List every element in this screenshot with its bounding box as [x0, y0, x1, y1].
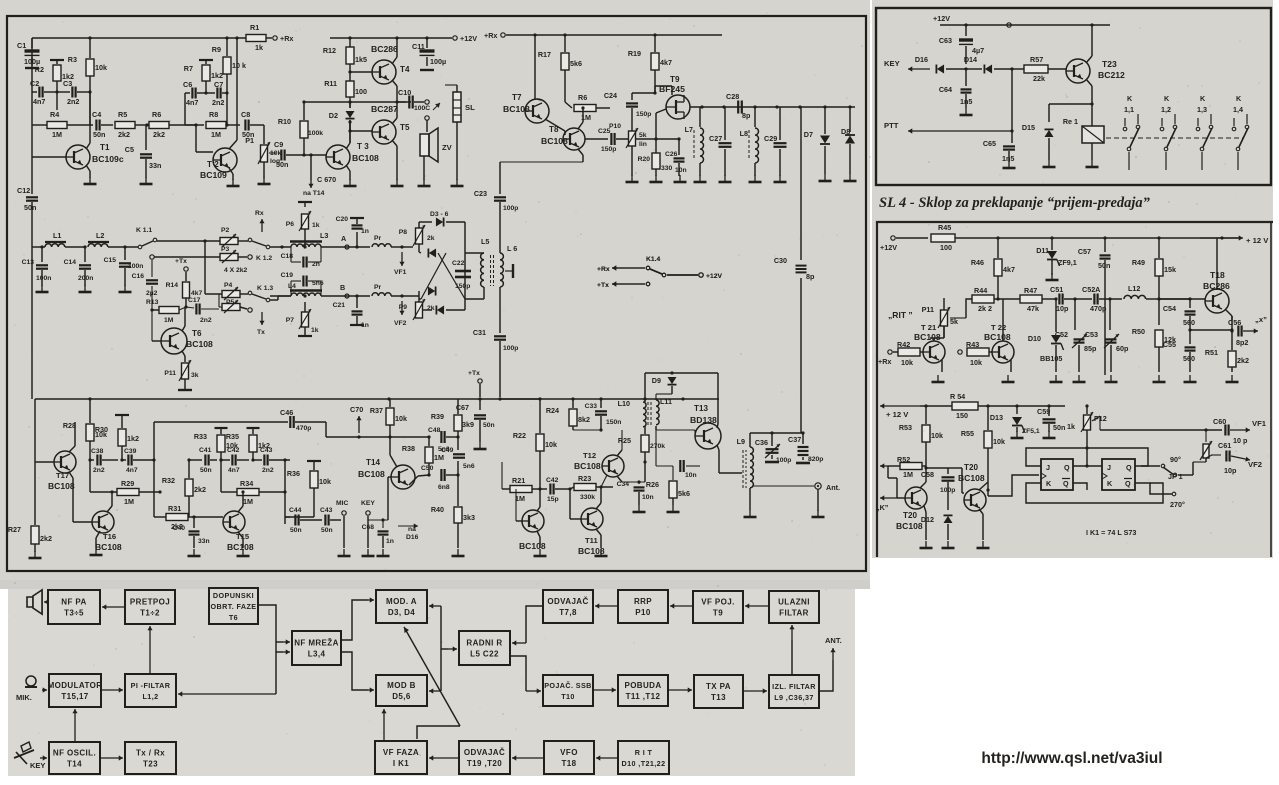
capacitor C4 [95, 120, 97, 131]
long wire to C60 [1100, 429, 1222, 431]
svg-text:T5: T5 [400, 123, 410, 132]
svg-text:C33: C33 [585, 403, 598, 410]
svg-text:C10: C10 [398, 88, 411, 97]
svg-text:2k2: 2k2 [194, 485, 206, 494]
T16 collector/emitter [107, 506, 112, 512]
svg-text:SL: SL [465, 103, 475, 112]
T13 emitter to L9 [717, 445, 719, 450]
arrow into MOD B right [429, 690, 441, 692]
switch arm K1.2 row [252, 241, 266, 246]
output jack to SL [425, 100, 429, 104]
svg-text:BC108: BC108 [519, 541, 546, 551]
svg-text:T 21: T 21 [921, 323, 937, 332]
transformer L5/L6 [465, 252, 484, 254]
block POJAC.SSB [543, 675, 593, 706]
resistor R7 [205, 60, 207, 64]
svg-text:P8: P8 [399, 229, 408, 236]
svg-text:L3,4: L3,4 [308, 650, 326, 659]
wire T20b collector to clock [987, 490, 989, 496]
svg-text:IZL. FILTAR: IZL. FILTAR [772, 682, 816, 691]
wire SL top [456, 85, 458, 92]
resistor R4 [32, 124, 47, 126]
svg-text:R26: R26 [646, 480, 659, 489]
svg-text:1n: 1n [386, 538, 394, 545]
capacitor C67 [479, 399, 481, 410]
T2 collector up [229, 140, 237, 149]
svg-text:VF1: VF1 [394, 269, 407, 276]
svg-text:T 3: T 3 [357, 142, 369, 151]
capacitor C65 [1011, 131, 1013, 143]
svg-text:8p: 8p [742, 111, 751, 120]
+Tx terminal mid [478, 379, 482, 383]
capacitor C14 [84, 247, 86, 262]
transistor T16 BC108 [92, 511, 114, 533]
right-mid panel border [877, 222, 1273, 557]
svg-text:820p: 820p [808, 456, 823, 463]
wire IZL.FILTAR to ANT [819, 660, 833, 691]
svg-text:50n: 50n [290, 527, 302, 534]
svg-text:C23: C23 [474, 189, 487, 198]
svg-text:R34: R34 [240, 479, 253, 488]
block TX PA [694, 675, 743, 708]
svg-text:R31: R31 [168, 504, 181, 513]
svg-text:C60: C60 [1213, 417, 1226, 426]
svg-text:BD138: BD138 [690, 415, 717, 425]
JP1 selector [1161, 464, 1165, 468]
pot P11 3k [182, 363, 189, 379]
trimmer C53 [1109, 299, 1111, 330]
resistor R19 [654, 35, 656, 52]
transistor T21 BC108 [923, 341, 945, 363]
svg-text:+Rx: +Rx [280, 34, 293, 43]
na D16 arrow [398, 525, 418, 527]
svg-text:10p: 10p [1224, 466, 1237, 475]
svg-text:NF PA: NF PA [61, 598, 86, 607]
capacitor C38 [96, 455, 98, 466]
diode D15 [1045, 130, 1054, 137]
wire C30 column to L9 top [750, 432, 803, 434]
svg-text:VF FAZA: VF FAZA [383, 748, 419, 757]
transistor T23 BC212 [1066, 59, 1090, 83]
svg-text:J: J [1107, 463, 1111, 472]
resistor R36 [307, 460, 321, 462]
svg-text:VF2: VF2 [394, 320, 407, 327]
resistor R57 [1012, 68, 1025, 70]
svg-text:T13: T13 [711, 693, 726, 702]
resistor R46 [997, 238, 999, 258]
svg-text:1M: 1M [903, 470, 913, 479]
svg-text:ZF5,1: ZF5,1 [1022, 428, 1040, 435]
svg-text:P2: P2 [221, 227, 230, 234]
wire C16 bottom left join [144, 306, 146, 308]
svg-text:D14: D14 [964, 55, 977, 64]
svg-text:C5: C5 [125, 145, 134, 154]
svg-text:2n2: 2n2 [67, 97, 79, 106]
svg-text:L1: L1 [53, 231, 61, 240]
svg-text:10 k: 10 k [232, 61, 246, 70]
svg-text:J: J [1046, 463, 1050, 472]
svg-text:+ 12 V: + 12 V [1246, 236, 1269, 245]
svg-text:BC108: BC108 [95, 542, 122, 552]
arrow into NF MREZA top input [276, 641, 283, 643]
capacitor C23 [494, 196, 506, 198]
svg-text:FILTAR: FILTAR [779, 609, 809, 618]
capacitor C41 [189, 459, 202, 461]
svg-text:MOD. A: MOD. A [386, 597, 417, 606]
svg-text:BC212: BC212 [1098, 70, 1125, 80]
capacitor C5 33n [145, 125, 147, 150]
svg-text:10k: 10k [970, 358, 982, 367]
svg-text:2k: 2k [427, 235, 435, 242]
svg-text:R20: R20 [638, 156, 651, 163]
transistor T14 BC108 [391, 465, 415, 489]
block RADNI R [459, 631, 510, 665]
T14 collector [389, 437, 391, 455]
svg-text:T6: T6 [192, 329, 202, 338]
capacitor C56 output [1231, 330, 1233, 331]
bus rail y397 [35, 398, 719, 400]
feedback wire into PI-FILTAR [178, 693, 276, 695]
svg-text:K: K [1236, 94, 1242, 103]
wire C54/C55 node to T18 emitter [1190, 329, 1232, 331]
svg-text:Tx: Tx [257, 329, 265, 336]
speaker ZV [420, 134, 429, 156]
svg-text:100: 100 [355, 87, 367, 96]
capacitor C3 [57, 91, 70, 93]
svg-text:90°: 90° [1170, 455, 1181, 464]
resistor R32 [188, 460, 190, 478]
svg-text:150p: 150p [455, 283, 470, 290]
block PRETPOJ [125, 590, 175, 624]
svg-text:R8: R8 [209, 110, 218, 119]
resistor R21 [510, 486, 532, 493]
svg-text:1k5: 1k5 [355, 55, 367, 64]
capacitor C13 [41, 247, 43, 262]
svg-text:C40: C40 [173, 525, 186, 532]
svg-text:1,2: 1,2 [1161, 105, 1171, 114]
top rail row1 [32, 37, 246, 39]
main panel border [7, 16, 866, 571]
capacitor C6 [185, 92, 190, 94]
capacitor C48 [440, 431, 442, 443]
svg-text:P10: P10 [635, 608, 651, 617]
svg-text:L9 ,C36,37: L9 ,C36,37 [774, 693, 814, 702]
svg-text:3k9: 3k9 [462, 420, 474, 429]
svg-text:I K1 = 74 L S73: I K1 = 74 L S73 [1086, 528, 1136, 537]
block VFO [544, 741, 594, 774]
capacitor C11 electrolytic [426, 38, 428, 48]
svg-text:PI -FILTAR: PI -FILTAR [131, 681, 171, 690]
svg-text:4k7: 4k7 [191, 290, 203, 297]
svg-text:MOD B: MOD B [387, 681, 416, 690]
svg-text:BC108: BC108 [186, 339, 213, 349]
svg-text:R10: R10 [278, 117, 291, 126]
transistor T12 BC108 [602, 455, 624, 477]
svg-text:1k: 1k [1067, 422, 1075, 431]
svg-text:C22: C22 [452, 260, 465, 267]
svg-text:D15: D15 [1022, 123, 1035, 132]
svg-text:C39: C39 [124, 448, 137, 455]
transistor T20b BC108 [964, 489, 986, 511]
KEY terminal [366, 511, 370, 515]
svg-text:C29: C29 [764, 134, 777, 143]
ground under Re1 [1091, 160, 1093, 167]
svg-text:22k: 22k [1033, 74, 1045, 83]
svg-text:http://www.qsl.net/va3iul: http://www.qsl.net/va3iul [981, 750, 1162, 767]
pot P9 [416, 302, 423, 318]
svg-text:BC108: BC108 [227, 542, 254, 552]
resistor R11 [349, 79, 351, 81]
svg-text:R50: R50 [1132, 327, 1145, 336]
block PI-FILTAR [125, 674, 176, 707]
svg-text:1k: 1k [312, 222, 320, 229]
svg-text:MIK.: MIK. [16, 693, 32, 702]
svg-text:470p: 470p [296, 425, 311, 432]
T9 BF245 [666, 95, 690, 119]
svg-text:10k: 10k [95, 63, 107, 72]
T13 BD138 [695, 423, 721, 449]
svg-text:+Tx: +Tx [468, 370, 480, 377]
mic icon [26, 676, 36, 686]
svg-text:50n: 50n [1098, 261, 1110, 270]
svg-text:C59: C59 [1037, 407, 1050, 416]
capacitor C8 [244, 120, 246, 131]
wire DOPUNSKI to NF MREZA input [258, 605, 276, 694]
inductor L12 [1124, 295, 1146, 299]
svg-text:JP 1: JP 1 [1168, 472, 1183, 481]
svg-text:C65: C65 [983, 139, 996, 148]
capacitor C43b [324, 515, 326, 526]
resistor R17 [564, 35, 566, 52]
svg-text:K: K [1127, 94, 1133, 103]
svg-text:1n: 1n [361, 228, 369, 235]
svg-text:T23: T23 [1102, 59, 1117, 69]
svg-text:L12: L12 [1128, 284, 1140, 293]
capacitor C20 [356, 232, 358, 247]
svg-text:VF POJ.: VF POJ. [701, 598, 734, 607]
svg-text:50n: 50n [200, 467, 212, 474]
svg-text:C11: C11 [412, 42, 425, 51]
R55 [987, 406, 989, 430]
svg-text:5k6: 5k6 [678, 489, 690, 498]
T3 BC108 [326, 145, 350, 169]
svg-text:10n: 10n [685, 472, 697, 479]
svg-text:+Tx: +Tx [175, 258, 187, 265]
MIC terminal [342, 511, 346, 515]
svg-text:L9: L9 [737, 437, 745, 446]
svg-text:+12V: +12V [880, 243, 897, 252]
svg-text:10k: 10k [901, 358, 913, 367]
svg-text:C30: C30 [774, 256, 787, 265]
arrow into MOD A right [429, 605, 441, 607]
T23 collector wire to rail [1086, 56, 1092, 63]
svg-text:60p: 60p [1116, 344, 1129, 353]
resistor R23 [574, 484, 596, 491]
svg-text:BC108: BC108 [352, 153, 379, 163]
block VF POJ [693, 591, 743, 623]
resistor R9 [226, 38, 228, 56]
arrow TX PA to IZL.FILTAR [743, 690, 767, 692]
svg-text:D3, D4: D3, D4 [388, 608, 415, 617]
svg-text:„K”: „K” [876, 503, 889, 512]
resistor R53 [925, 406, 927, 424]
svg-text:4n7: 4n7 [228, 467, 240, 474]
R43 [958, 350, 962, 354]
node A [345, 245, 349, 249]
svg-text:BC108: BC108 [896, 521, 923, 531]
svg-text:4n7: 4n7 [33, 97, 45, 106]
svg-text:1M: 1M [211, 130, 221, 139]
svg-text:15k: 15k [1164, 265, 1176, 274]
resistor R33 [220, 428, 222, 434]
T9 gate wire [655, 113, 657, 139]
ground under C1 [25, 67, 39, 69]
svg-text:2n2: 2n2 [212, 98, 224, 107]
svg-text:BC108: BC108 [48, 481, 75, 491]
transistor T18 BC286 [1205, 289, 1229, 313]
node B [345, 294, 349, 298]
svg-text:„x”: „x” [1255, 315, 1267, 324]
arrow NF OSCIL up to MODULATOR [74, 709, 76, 742]
arrow RIT to VFO [596, 757, 618, 759]
coil L2 [88, 244, 108, 247]
ground under L7 [699, 175, 701, 182]
svg-text:2k2: 2k2 [153, 130, 165, 139]
svg-text:L5 C22: L5 C22 [470, 650, 499, 659]
coil L9 [749, 433, 751, 447]
svg-text:4 X 2k2: 4 X 2k2 [224, 267, 248, 274]
svg-text:BC108: BC108 [914, 332, 941, 342]
svg-text:P1: P1 [245, 136, 254, 145]
svg-text:T6: T6 [229, 613, 238, 622]
svg-text:POJAČ. SSB: POJAČ. SSB [544, 681, 592, 690]
svg-text:MIC: MIC [336, 500, 348, 507]
pot P11 [941, 310, 948, 326]
capacitor C40 [193, 517, 195, 528]
capacitor C58 [926, 467, 948, 469]
svg-text:+Tx: +Tx [597, 282, 609, 289]
transistor T10 BC108 [522, 510, 544, 532]
svg-text:BC108: BC108 [958, 473, 985, 483]
transformer L10 L11 [643, 402, 646, 427]
arrow VFO to ODVAJAC T19,T20 [512, 757, 544, 759]
+Rx rail right [501, 33, 505, 37]
capacitor C43 [253, 459, 262, 461]
T15 connections [238, 506, 243, 512]
svg-text:lin: lin [639, 141, 647, 148]
T8 emitter down to C23 [578, 149, 583, 155]
svg-text:C19: C19 [281, 272, 294, 279]
svg-text:33n: 33n [149, 161, 161, 170]
svg-text:R12: R12 [323, 46, 336, 55]
svg-text:P6: P6 [286, 221, 295, 228]
svg-text:560: 560 [1183, 318, 1195, 327]
block NF MREZA [292, 631, 341, 665]
svg-text:K: K [1046, 479, 1052, 488]
svg-text:10n: 10n [642, 494, 654, 501]
svg-text:L7: L7 [685, 125, 693, 134]
diode D16 [937, 65, 944, 74]
svg-text:5k: 5k [639, 132, 647, 139]
capacitor C16 [151, 260, 153, 277]
left vertical down [31, 247, 33, 399]
svg-text:C13: C13 [22, 259, 35, 266]
svg-text:BB105: BB105 [1040, 354, 1062, 363]
svg-text:Pr: Pr [374, 284, 382, 291]
block NF PA [48, 590, 100, 624]
ground under C37 [796, 462, 810, 465]
capacitor C9 [269, 152, 276, 154]
T17 collector [69, 446, 75, 452]
T13 collector top [717, 424, 718, 428]
svg-text:T10: T10 [561, 692, 575, 701]
T14 base from key line [387, 477, 389, 520]
diode D7 [824, 107, 826, 134]
T7/T8 connect [545, 119, 565, 131]
svg-text:10k: 10k [395, 414, 407, 423]
T21 emitter ground [941, 360, 943, 372]
svg-text:BC108: BC108 [574, 461, 601, 471]
svg-text:L4: L4 [288, 283, 296, 290]
svg-text:R40: R40 [431, 505, 444, 514]
resistor R40 [457, 475, 459, 506]
svg-text:Q: Q [1064, 463, 1070, 472]
rail 107 right [690, 106, 855, 108]
T5 collector up [392, 118, 397, 124]
svg-text:47k: 47k [1027, 304, 1039, 313]
diagonal wire VF FAZA to MOD A [417, 726, 460, 739]
svg-text:2k2: 2k2 [1237, 356, 1249, 365]
svg-text:C27: C27 [709, 134, 722, 143]
svg-text:R1: R1 [250, 23, 259, 32]
svg-text:P5: P5 [226, 299, 235, 306]
svg-text:L1,2: L1,2 [143, 692, 159, 701]
svg-text:100µ: 100µ [430, 57, 446, 66]
svg-text:PRETPOJ: PRETPOJ [130, 598, 170, 607]
svg-text:150p: 150p [601, 146, 616, 153]
svg-text:T20: T20 [903, 511, 917, 520]
svg-text:ODVAJAČ: ODVAJAČ [547, 597, 588, 606]
svg-text:1M: 1M [52, 130, 62, 139]
svg-text:ANT.: ANT. [825, 636, 842, 645]
main vertical x500 [499, 162, 501, 194]
svg-text:ZV: ZV [442, 143, 453, 152]
svg-text:Q: Q [1063, 479, 1069, 488]
+Tx terminal T6 [184, 267, 188, 271]
scan noise speckles [417, 119, 418, 120]
wire NF MREZA out down to MOD B [341, 652, 368, 690]
svg-text:D3 - 6: D3 - 6 [430, 211, 449, 218]
svg-text:C28: C28 [726, 92, 739, 101]
ground under D8 [849, 174, 851, 181]
capacitor C25 [585, 138, 608, 140]
svg-text:50n: 50n [483, 422, 495, 429]
block NF OSCIL [49, 742, 100, 774]
svg-text:P11: P11 [164, 370, 176, 377]
svg-text:C67: C67 [456, 403, 469, 412]
ground under C26 [679, 175, 681, 182]
svg-text:RRP: RRP [634, 597, 652, 606]
T3 collector [346, 143, 350, 149]
D9 top loop [644, 373, 646, 399]
T12 collector [617, 450, 622, 456]
resistor R6 [149, 122, 169, 129]
capacitor C10 [397, 101, 406, 103]
capacitor C44 [285, 516, 290, 518]
svg-text:Ant.: Ant. [826, 483, 840, 492]
svg-text:L5: L5 [481, 237, 489, 246]
svg-text:A: A [341, 234, 346, 243]
